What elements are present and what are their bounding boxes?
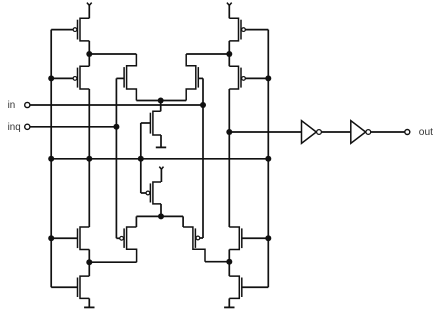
node T junction <box>158 213 164 219</box>
wire M7 drain to left column node <box>89 261 136 263</box>
wire M4 drain node to node B <box>186 53 229 55</box>
svg-text:in: in <box>8 100 16 111</box>
output terminal out <box>405 127 433 138</box>
transistor M2R right PMOS <box>229 54 268 89</box>
junction M5R gate on right gate bus <box>265 235 271 241</box>
wire node S to M4 source <box>161 100 187 102</box>
junction in line / right cross gate bus <box>200 102 206 108</box>
inverter U2 <box>351 121 371 144</box>
wire M8 drain to right column node <box>205 261 229 263</box>
svg-text:out: out <box>419 127 433 138</box>
wire node A to M3 drain <box>89 53 136 55</box>
transistor M6R bottom-right NMOS lower <box>229 276 268 298</box>
transistor M2 left PMOS <box>51 54 89 89</box>
transistor M5 bottom-left NMOS <box>51 227 89 250</box>
junction left bottom node <box>86 259 92 265</box>
power supply VDD symbol (center) <box>159 167 163 182</box>
transistor M5R bottom-right NMOS <box>229 227 268 250</box>
node B junction <box>226 51 232 57</box>
wire left cross-couple gate bus <box>115 78 117 238</box>
wire U2 to out terminal <box>371 131 405 133</box>
wire M1 drain to node A <box>88 41 90 54</box>
junction M2R gate on right gate bus <box>265 75 271 81</box>
wire M5 source down <box>88 250 90 277</box>
junction M5 gate on left gate bus <box>48 235 54 241</box>
transistor M1R top-right PMOS <box>229 18 268 41</box>
input terminal in <box>8 100 30 111</box>
node A junction <box>86 51 92 57</box>
wire center gate bus <box>140 123 142 193</box>
junction right gate bus / bias bus <box>265 156 271 162</box>
wire M3 source to node S <box>136 100 160 102</box>
wire M1R drain to node B <box>228 41 230 54</box>
transistor M1 top-left PMOS <box>51 18 89 41</box>
junction left gate bus / bias bus <box>48 156 54 162</box>
wire node T horizontal <box>136 215 183 217</box>
node S junction <box>158 98 164 104</box>
wire in line <box>30 104 203 106</box>
wire left gate bus <box>50 30 52 288</box>
transistor M10 center PMOS <box>141 182 161 204</box>
wire left outer column <box>88 89 90 227</box>
svg-text:inq: inq <box>8 122 21 133</box>
power supply VDD symbol (left) <box>87 3 92 19</box>
wire U1 to U2 <box>321 131 350 133</box>
transistor M4 cross-coupled NMOS (upper right) <box>186 54 203 101</box>
wire right gate bus <box>267 30 269 288</box>
wire M10 drain to node T <box>160 204 162 217</box>
ground symbol bottom-left <box>84 298 94 307</box>
wire output node to inverter U1 <box>229 131 301 133</box>
wire inq line <box>30 126 117 128</box>
input terminal inq <box>8 122 30 133</box>
transistor M9 center NMOS <box>141 101 161 136</box>
bias bus wire <box>51 158 268 160</box>
junction left column / bias bus <box>86 156 92 162</box>
transistor M3 cross-coupled NMOS (upper left) <box>116 54 136 101</box>
ground symbol bottom-right <box>224 298 234 307</box>
transistor M7 cross-coupled PMOS (lower left) <box>116 216 136 262</box>
wire right cross-couple gate bus <box>202 78 204 238</box>
junction right bottom node <box>226 259 232 265</box>
transistor M6 bottom-left NMOS lower <box>51 276 89 298</box>
wire right outer column <box>228 89 230 227</box>
junction inq line / left cross gate bus <box>113 124 119 130</box>
junction output node <box>226 129 232 135</box>
power supply VDD symbol (right) <box>227 3 232 19</box>
wire M5R source down <box>228 250 230 277</box>
transistor M8 cross-coupled PMOS (lower right) <box>183 216 205 261</box>
ground symbol under M9 <box>156 135 166 147</box>
junction M2 gate on left gate bus <box>48 75 54 81</box>
junction center gate bus / bias bus <box>138 156 144 162</box>
inverter U1 <box>302 121 322 144</box>
